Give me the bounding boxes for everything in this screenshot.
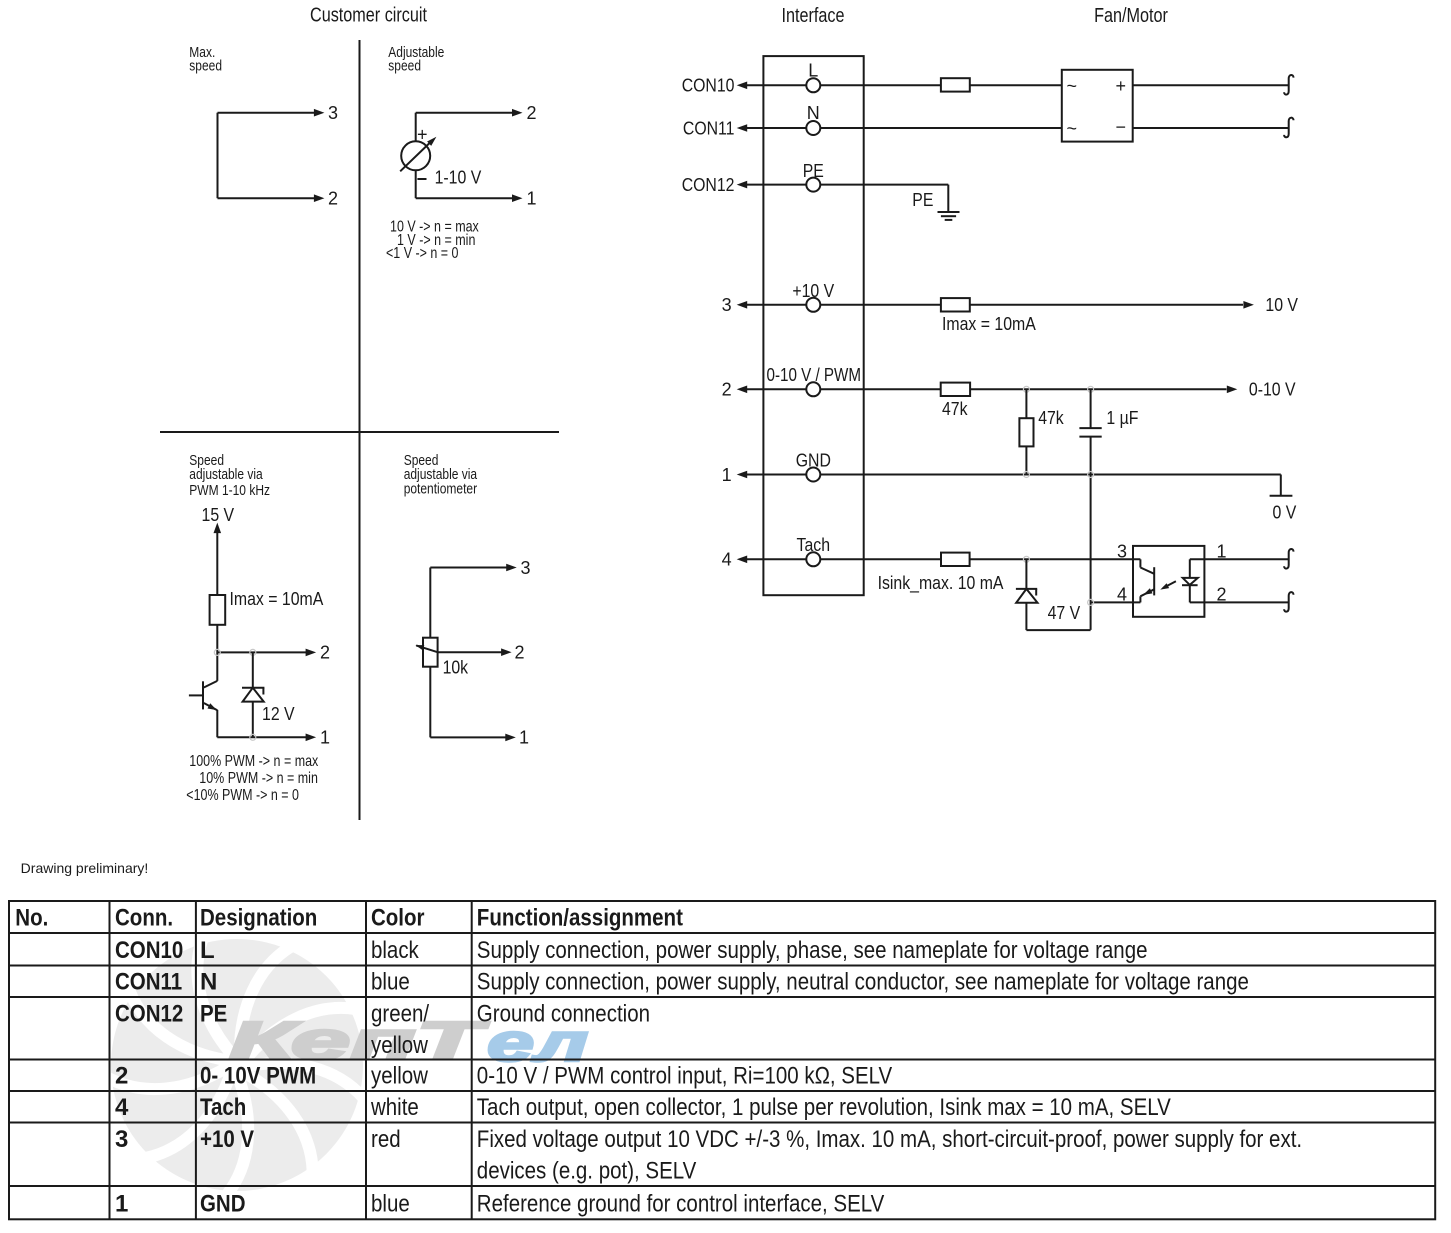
svg-text:Tach: Tach: [200, 1094, 246, 1121]
transistor Q1 open collector: [189, 681, 217, 737]
wire zener bottom: [1026, 629, 1090, 631]
junction: [1023, 386, 1029, 392]
svg-text:Interface: Interface: [782, 5, 845, 27]
svg-text:2: 2: [320, 643, 330, 663]
wire rectifier + to motor: [1133, 84, 1289, 86]
capacitor 1uF: [1090, 389, 1092, 428]
rectifier bridge: [1062, 70, 1133, 142]
svg-text:Supply connection, power suppl: Supply connection, power supply, neutral…: [477, 969, 1249, 996]
wire PE: [820, 184, 948, 186]
wire wiper to terminal 2: [438, 651, 502, 653]
svg-text:yellow: yellow: [371, 1032, 429, 1059]
wire break: [1284, 592, 1293, 612]
svg-text:47k: 47k: [942, 399, 968, 419]
svg-text:black: black: [371, 937, 420, 964]
phototransistor: [1140, 559, 1154, 602]
svg-text:~: ~: [1067, 119, 1078, 139]
wire pin2 arrow: [747, 388, 806, 390]
svg-text:Customer circuit: Customer circuit: [310, 5, 427, 27]
svg-text:PWM 1-10 kHz: PWM 1-10 kHz: [189, 482, 270, 499]
table row 2: [115, 1063, 892, 1090]
fuse Isink: [941, 553, 970, 566]
wire 15V arrow up: [214, 523, 222, 534]
svg-text:CON12: CON12: [682, 175, 735, 195]
voltage source V1 1-10V: [401, 141, 430, 170]
interface box: [763, 56, 863, 595]
resistor 47k shunt: [1025, 389, 1027, 418]
svg-text:Fan/Motor: Fan/Motor: [1094, 5, 1168, 27]
svg-text:Tach: Tach: [797, 535, 831, 555]
svg-text:red: red: [371, 1126, 401, 1153]
wire fuse to rectifier: [970, 84, 1062, 86]
table row CON10: [115, 937, 1148, 964]
wire max-speed vertical: [217, 113, 219, 199]
wire max-speed to terminal 3: [218, 112, 315, 114]
wire break: [1284, 549, 1293, 569]
junction: [1088, 386, 1094, 392]
svg-text:GND: GND: [200, 1191, 246, 1218]
wire L to fuse: [820, 84, 941, 86]
wire pin3 arrow: [747, 304, 806, 306]
svg-text:10% PWM -> n = min: 10% PWM -> n = min: [199, 770, 318, 787]
svg-text:15 V: 15 V: [202, 505, 235, 525]
svg-text:+10 V: +10 V: [200, 1126, 254, 1153]
svg-text:<1 V -> n = 0: <1 V -> n = 0: [386, 245, 459, 262]
svg-text:devices (e.g. pot), SELV: devices (e.g. pot), SELV: [477, 1158, 697, 1185]
junction: [214, 649, 220, 655]
table row CON12: [115, 1001, 650, 1060]
terminal GND circle: [806, 468, 820, 482]
wire to voltage source: [415, 113, 417, 142]
wire 0-10V to fuse: [820, 388, 940, 390]
svg-text:N: N: [807, 103, 820, 123]
junction: [1023, 556, 1029, 562]
wire CON12 arrow: [747, 184, 806, 186]
table header row: [15, 905, 683, 932]
svg-text:N: N: [200, 969, 217, 996]
svg-text:4: 4: [722, 550, 732, 570]
svg-text:Supply connection, power suppl: Supply connection, power supply, phase, …: [477, 937, 1148, 964]
svg-text:0-10 V / PWM: 0-10 V / PWM: [767, 365, 862, 385]
svg-text:Function/assignment: Function/assignment: [477, 905, 683, 932]
terminal PE circle: [806, 178, 820, 192]
svg-text:green/: green/: [371, 1001, 429, 1028]
ground PE: [938, 212, 960, 220]
wire resistor to collector node: [216, 625, 218, 681]
wire pin4 line: [1091, 601, 1141, 603]
svg-text:3: 3: [115, 1126, 128, 1153]
svg-text:Imax = 10mA: Imax = 10mA: [230, 589, 324, 609]
potentiometer R 10k: [423, 638, 438, 667]
svg-text:1: 1: [722, 465, 732, 485]
svg-text:Ground connection: Ground connection: [477, 1001, 650, 1028]
light arrow: [1163, 581, 1176, 588]
wire pin1 arrow: [747, 474, 806, 476]
svg-text:Conn.: Conn.: [115, 905, 173, 932]
wire break: [1284, 118, 1293, 138]
terminal L circle: [806, 78, 820, 92]
wire pot bottom to terminal 1: [429, 667, 431, 738]
svg-text:3: 3: [1117, 541, 1127, 561]
svg-text:+10 V: +10 V: [792, 281, 834, 301]
junction: [1088, 599, 1094, 605]
svg-text:+: +: [1116, 76, 1127, 96]
svg-text:47 V: 47 V: [1048, 603, 1081, 623]
wire +10V to fuse: [820, 304, 941, 306]
svg-text:CON10: CON10: [115, 937, 183, 964]
LED: [1182, 559, 1198, 602]
svg-text:12 V: 12 V: [262, 704, 295, 724]
svg-text:0 V: 0 V: [1273, 503, 1297, 523]
wire adj-speed to terminal 2: [416, 112, 512, 114]
wire max-speed to terminal 2: [218, 197, 315, 199]
svg-text:CON11: CON11: [115, 969, 182, 996]
svg-text:speed: speed: [189, 57, 222, 74]
svg-text:+: +: [417, 125, 428, 145]
svg-text:−: −: [1116, 117, 1127, 137]
svg-text:yellow: yellow: [371, 1063, 429, 1090]
svg-text:1 µF: 1 µF: [1106, 408, 1138, 428]
svg-text:3: 3: [328, 103, 338, 123]
svg-text:PE: PE: [200, 1001, 227, 1028]
wire GND: [820, 474, 1281, 476]
svg-text:0- 10V PWM: 0- 10V PWM: [200, 1063, 316, 1090]
terminal Tach circle: [806, 552, 820, 566]
svg-text:potentiometer: potentiometer: [404, 480, 477, 497]
svg-text:4: 4: [1117, 584, 1127, 604]
ground 0V: [1280, 475, 1282, 496]
svg-text:Fixed voltage output 10 VDC +/: Fixed voltage output 10 VDC +/-3 %, Imax…: [477, 1126, 1302, 1153]
svg-text:GND: GND: [796, 451, 831, 471]
wire to 10V output: [970, 304, 1243, 306]
terminal +10V circle: [806, 298, 820, 312]
svg-text:PE: PE: [803, 161, 824, 181]
wire Tach to fuse: [820, 558, 941, 560]
svg-text:47k: 47k: [1038, 408, 1064, 428]
svg-text:1: 1: [527, 189, 537, 209]
quadrant divider vertical: [359, 40, 361, 820]
svg-text:10k: 10k: [443, 658, 469, 678]
svg-text:2: 2: [328, 189, 338, 209]
svg-text:L: L: [808, 61, 818, 81]
svg-text:Designation: Designation: [200, 905, 317, 932]
svg-text:1: 1: [519, 728, 529, 748]
svg-text:speed: speed: [388, 57, 421, 74]
wire pot top to terminal 3: [430, 567, 506, 569]
svg-text:100% PWM -> n = max: 100% PWM -> n = max: [189, 753, 318, 770]
wire branch to terminal 2: [217, 651, 306, 653]
svg-text:Tach output, open collector, 1: Tach output, open collector, 1 pulse per…: [477, 1094, 1171, 1121]
watermark fan logo: [107, 939, 364, 1196]
zener diode 47V: [1016, 559, 1038, 630]
svg-text:CON11: CON11: [683, 118, 735, 138]
svg-text:adjustable via: adjustable via: [189, 466, 263, 483]
svg-text:blue: blue: [371, 1191, 410, 1218]
wire adj-speed to terminal 1: [416, 197, 512, 199]
table row 3: [115, 1126, 1302, 1185]
resistor Imax=10mA: [210, 595, 226, 625]
svg-text:Imax = 10mA: Imax = 10mA: [942, 314, 1036, 334]
fuse Imax 10mA: [941, 298, 970, 311]
wire to 0-10V output: [970, 388, 1226, 390]
svg-text:2: 2: [527, 103, 537, 123]
quadrant divider horizontal: [160, 431, 559, 433]
terminal 0-10V/PWM circle: [806, 382, 820, 396]
svg-text:0-10 V: 0-10 V: [1249, 380, 1296, 400]
svg-text:4: 4: [115, 1094, 129, 1121]
terminal N circle: [806, 121, 820, 135]
svg-text:CON10: CON10: [682, 76, 735, 96]
svg-text:white: white: [370, 1094, 419, 1121]
svg-text:L: L: [200, 937, 215, 964]
svg-text:3: 3: [722, 295, 732, 315]
wire pin2 to break: [1190, 601, 1289, 603]
svg-text:Reference ground for control i: Reference ground for control interface, …: [477, 1191, 885, 1218]
svg-text:1-10 V: 1-10 V: [435, 167, 482, 187]
svg-text:<10% PWM -> n = 0: <10% PWM -> n = 0: [186, 787, 299, 804]
wire from source bottom: [415, 170, 417, 198]
wire N to rectifier: [820, 127, 1062, 129]
wire fuse to optocoupler: [970, 558, 1141, 560]
wire pin4 arrow: [747, 558, 806, 560]
svg-text:1: 1: [115, 1191, 128, 1218]
minus sign: [417, 178, 426, 180]
junction: [250, 649, 256, 655]
fuse/resistor 47k series: [941, 383, 970, 396]
fuse F1: [941, 78, 970, 91]
svg-text:~: ~: [1067, 76, 1078, 96]
table row 1 GND: [115, 1191, 884, 1218]
svg-text:No.: No.: [15, 905, 48, 932]
optocoupler U1 box: [1133, 546, 1204, 617]
table row 4: [115, 1094, 1171, 1121]
table frame: [9, 901, 1435, 1219]
wire bottom to terminal 1: [217, 736, 306, 738]
wire down to pot: [429, 568, 431, 638]
wire rectifier - to motor: [1133, 127, 1289, 129]
svg-text:3: 3: [521, 558, 531, 578]
wire CON10 arrow: [747, 84, 806, 86]
svg-text:Isink_max. 10 mA: Isink_max. 10 mA: [878, 573, 1004, 594]
svg-text:1: 1: [320, 728, 330, 748]
svg-text:10 V: 10 V: [1265, 295, 1298, 315]
junction: [1023, 472, 1029, 478]
svg-text:Drawing preliminary!: Drawing preliminary!: [21, 860, 149, 876]
svg-text:blue: blue: [371, 969, 410, 996]
wire break: [1284, 75, 1293, 95]
table row CON11: [115, 969, 1249, 996]
junction: [250, 734, 256, 740]
svg-text:PE: PE: [912, 190, 933, 210]
wire CON11 arrow: [747, 127, 806, 129]
svg-text:Color: Color: [371, 905, 425, 932]
zener diode 12V: [242, 652, 264, 737]
wire pin1 to break: [1190, 558, 1289, 560]
svg-text:2: 2: [722, 380, 732, 400]
junction: [1088, 472, 1094, 478]
svg-text:CON12: CON12: [115, 1001, 183, 1028]
svg-text:0-10 V / PWM control input, Ri: 0-10 V / PWM control input, Ri=100 kΩ, S…: [477, 1063, 892, 1090]
svg-text:2: 2: [115, 1063, 128, 1090]
svg-text:2: 2: [515, 643, 525, 663]
